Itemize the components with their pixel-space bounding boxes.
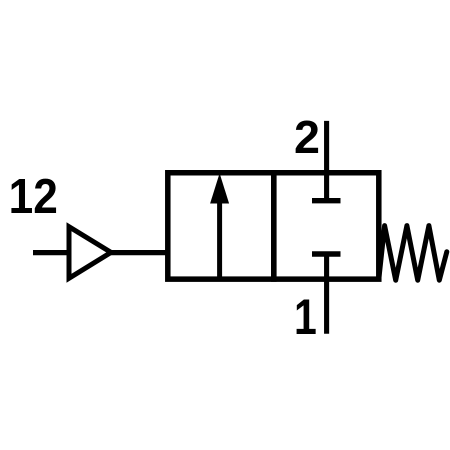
label 12 (pilot port) [9,170,58,224]
port 1 line [324,254,329,334]
svg-text:12: 12 [9,170,58,224]
pilot line 12 (left stub) [33,250,67,255]
valve body frame (two-position box) [168,173,379,279]
pilot actuator triangle [69,227,111,279]
port 2 line [324,121,329,201]
svg-text:2: 2 [294,111,320,163]
position divider [271,170,277,282]
label 2 (output port) [294,111,320,163]
return spring [379,226,447,281]
wire from pilot triangle to valve body [111,250,167,255]
flow path arrow (left cell) [210,173,229,279]
blocked port symbol top (T bar) [312,198,341,203]
svg-text:1: 1 [294,289,317,345]
blocked port symbol bottom (T bar) [312,251,341,256]
label 1 (supply port) [294,289,317,345]
